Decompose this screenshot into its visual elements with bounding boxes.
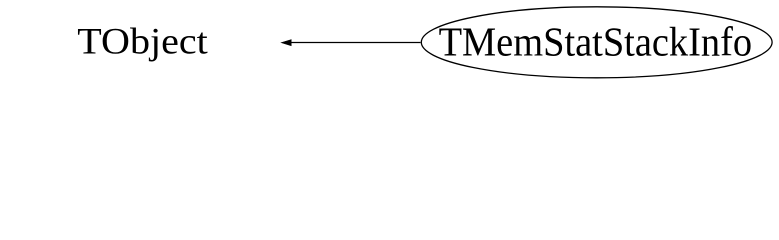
inheritance diagram: TMemStatStackInfo derives from TObject — [0, 0, 779, 86]
svg-text:TObject: TObject — [77, 22, 208, 63]
wire: inheritance arrow shaft — [290, 42, 421, 44]
node TMemStatStackInfo: ellipse — [421, 7, 772, 78]
svg-text:TMemStatStackInfo: TMemStatStackInfo — [439, 19, 752, 65]
arrowhead pointing at TObject — [281, 40, 291, 46]
